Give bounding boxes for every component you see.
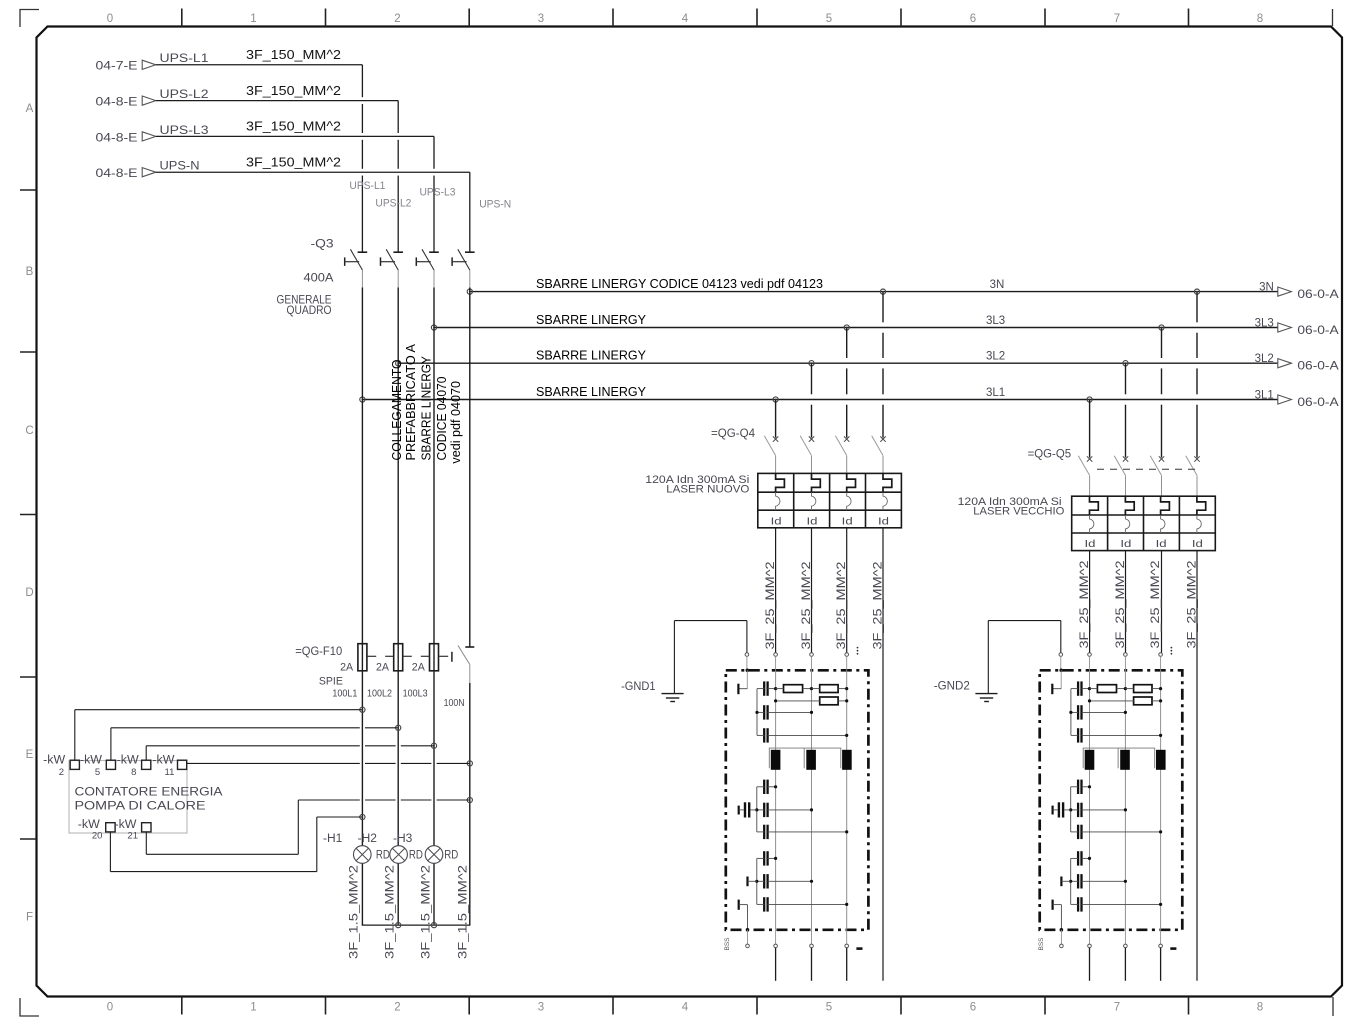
- svg-text:6: 6: [970, 1002, 976, 1014]
- svg-text:3F_150_MM^2: 3F_150_MM^2: [246, 83, 341, 98]
- svg-text:Id: Id: [807, 515, 818, 527]
- svg-text:6: 6: [970, 13, 976, 25]
- svg-text:SBARRE LINERGY CODICE 04123 ve: SBARRE LINERGY CODICE 04123 vedi pdf 041…: [536, 277, 823, 291]
- svg-text:3: 3: [538, 13, 544, 25]
- svg-text:11: 11: [165, 767, 175, 778]
- svg-text:Id: Id: [842, 515, 853, 527]
- svg-text:E: E: [26, 749, 34, 761]
- svg-text:=QG-Q4: =QG-Q4: [711, 426, 755, 440]
- svg-text:3F_150_MM^2: 3F_150_MM^2: [246, 154, 341, 169]
- svg-text:2A: 2A: [376, 661, 390, 673]
- svg-text:20: 20: [92, 830, 103, 841]
- svg-text:5: 5: [826, 1002, 832, 1014]
- svg-text:LASER VECCHIO: LASER VECCHIO: [973, 505, 1064, 517]
- svg-text:2A: 2A: [412, 661, 426, 673]
- svg-text:8: 8: [131, 767, 136, 778]
- svg-text:Id: Id: [1120, 538, 1131, 550]
- svg-text:3L1: 3L1: [986, 387, 1005, 399]
- svg-text:8: 8: [1257, 1002, 1263, 1014]
- svg-text:SBARRE LINERGY: SBARRE LINERGY: [536, 385, 647, 399]
- svg-text:3N: 3N: [1259, 281, 1274, 293]
- svg-text:3L2: 3L2: [1255, 353, 1274, 365]
- svg-text:0: 0: [107, 1002, 113, 1014]
- svg-text:D: D: [25, 587, 33, 599]
- svg-text:04-8-E: 04-8-E: [96, 166, 138, 180]
- svg-text:Id: Id: [1192, 538, 1203, 550]
- svg-text:06-0-A: 06-0-A: [1297, 289, 1339, 301]
- svg-text:UPS-L3: UPS-L3: [160, 123, 209, 137]
- svg-text:1: 1: [250, 1002, 256, 1014]
- svg-text:5: 5: [95, 767, 100, 778]
- svg-text:100L3: 100L3: [403, 687, 428, 699]
- svg-text:04-8-E: 04-8-E: [96, 95, 138, 109]
- svg-text:3: 3: [538, 1002, 544, 1014]
- svg-text:400A: 400A: [304, 271, 334, 285]
- svg-text:-H1: -H1: [323, 833, 342, 845]
- svg-text:7: 7: [1114, 13, 1120, 25]
- svg-text:3F_150_MM^2: 3F_150_MM^2: [246, 119, 341, 134]
- svg-text:RD: RD: [376, 850, 390, 862]
- svg-text:3F_25_MM^2: 3F_25_MM^2: [1113, 560, 1127, 648]
- svg-text:3F_25_MM^2: 3F_25_MM^2: [799, 561, 813, 649]
- svg-text:06-0-A: 06-0-A: [1297, 397, 1339, 409]
- svg-text:100L2: 100L2: [367, 687, 392, 699]
- svg-text:3F_1.5_MM^2: 3F_1.5_MM^2: [456, 865, 470, 959]
- svg-text:UPS-L2: UPS-L2: [160, 87, 209, 101]
- svg-text:3N: 3N: [990, 279, 1005, 291]
- svg-text:3F_1.5_MM^2: 3F_1.5_MM^2: [382, 865, 396, 959]
- svg-text:0: 0: [107, 13, 113, 25]
- svg-text:3L1: 3L1: [1255, 389, 1274, 401]
- svg-text:3F_1.5_MM^2: 3F_1.5_MM^2: [419, 865, 433, 959]
- svg-text:UPS-L2: UPS-L2: [375, 198, 411, 210]
- svg-text:1: 1: [250, 13, 256, 25]
- svg-text:5: 5: [826, 13, 832, 25]
- svg-text:CONTATORE ENERGIA: CONTATORE ENERGIA: [75, 785, 223, 799]
- svg-text:3L3: 3L3: [1255, 317, 1274, 329]
- svg-text:100N: 100N: [444, 697, 465, 709]
- svg-text:=QG-F10: =QG-F10: [295, 644, 342, 658]
- svg-text:3F_25_MM^2: 3F_25_MM^2: [1184, 560, 1198, 648]
- svg-text:4: 4: [682, 1002, 689, 1014]
- svg-text:SPIE: SPIE: [319, 676, 343, 688]
- svg-text:BSS: BSS: [724, 937, 731, 951]
- svg-text:3F_25_MM^2: 3F_25_MM^2: [1148, 560, 1162, 648]
- svg-text:RD: RD: [444, 850, 458, 862]
- svg-text:PREFABBRICATO A: PREFABBRICATO A: [404, 343, 418, 460]
- svg-text:A: A: [26, 103, 34, 115]
- svg-text:SBARRE LINERGY: SBARRE LINERGY: [420, 355, 434, 460]
- svg-text:3F_1.5_MM^2: 3F_1.5_MM^2: [347, 865, 361, 959]
- svg-text:=QG-Q5: =QG-Q5: [1028, 446, 1072, 460]
- svg-text:2A: 2A: [340, 661, 354, 673]
- svg-text:-kW: -kW: [78, 819, 100, 831]
- svg-text:-kW: -kW: [115, 819, 137, 831]
- svg-text:100L1: 100L1: [332, 687, 357, 699]
- svg-text:-Q3: -Q3: [311, 237, 334, 251]
- svg-text:8: 8: [1257, 13, 1263, 25]
- svg-text:7: 7: [1114, 1002, 1120, 1014]
- svg-text:21: 21: [127, 830, 138, 841]
- svg-text:-kW: -kW: [80, 755, 102, 767]
- svg-text:06-0-A: 06-0-A: [1297, 361, 1339, 373]
- svg-text:UPS-N: UPS-N: [479, 198, 511, 210]
- svg-text:-H3: -H3: [393, 833, 412, 845]
- svg-text:2: 2: [394, 13, 400, 25]
- svg-text:CODICE 04070: CODICE 04070: [435, 376, 449, 460]
- svg-text:3F_25_MM^2: 3F_25_MM^2: [834, 561, 848, 649]
- svg-text:C: C: [25, 425, 33, 437]
- svg-text:Id: Id: [771, 515, 782, 527]
- svg-text:QUADRO: QUADRO: [287, 303, 332, 317]
- svg-text:UPS-L1: UPS-L1: [349, 180, 385, 192]
- svg-text:LASER NUOVO: LASER NUOVO: [666, 484, 749, 496]
- svg-text:3F_25_MM^2: 3F_25_MM^2: [1077, 560, 1091, 648]
- svg-text:SBARRE LINERGY: SBARRE LINERGY: [536, 313, 647, 327]
- svg-text:UPS-L3: UPS-L3: [420, 187, 456, 199]
- svg-text:4: 4: [682, 13, 689, 25]
- svg-text:POMPA DI CALORE: POMPA DI CALORE: [75, 799, 206, 813]
- svg-text:SBARRE LINERGY: SBARRE LINERGY: [536, 349, 647, 363]
- svg-text:-GND2: -GND2: [934, 678, 970, 692]
- svg-text:3F_25_MM^2: 3F_25_MM^2: [763, 561, 777, 649]
- svg-text:Id: Id: [1156, 538, 1167, 550]
- svg-text:-GND1: -GND1: [621, 679, 656, 693]
- svg-text:B: B: [26, 266, 34, 278]
- svg-text:-kW: -kW: [152, 755, 174, 767]
- svg-text:-kW: -kW: [43, 755, 65, 767]
- svg-text:04-7-E: 04-7-E: [96, 59, 138, 73]
- svg-text:Id: Id: [878, 515, 889, 527]
- svg-text:3F_150_MM^2: 3F_150_MM^2: [246, 47, 341, 62]
- svg-text:UPS-L1: UPS-L1: [160, 51, 209, 65]
- svg-text:-H2: -H2: [358, 833, 377, 845]
- svg-text:vedi pdf 04070: vedi pdf 04070: [449, 381, 463, 464]
- svg-text:3L3: 3L3: [986, 315, 1005, 327]
- svg-text:2: 2: [59, 767, 64, 778]
- svg-text:2: 2: [394, 1002, 400, 1014]
- svg-text:UPS-N: UPS-N: [160, 159, 200, 173]
- svg-text:Id: Id: [1085, 538, 1096, 550]
- svg-text:RD: RD: [409, 850, 423, 862]
- svg-text:BSS: BSS: [1038, 937, 1045, 951]
- svg-text:06-0-A: 06-0-A: [1297, 325, 1339, 337]
- svg-text:3L2: 3L2: [986, 351, 1005, 363]
- svg-text:3F_25_MM^2: 3F_25_MM^2: [871, 561, 885, 649]
- svg-text:F: F: [26, 912, 33, 924]
- svg-text:04-8-E: 04-8-E: [96, 130, 138, 144]
- svg-text:-kW: -kW: [117, 755, 139, 767]
- svg-text:COLLEGAMENTO: COLLEGAMENTO: [390, 359, 404, 460]
